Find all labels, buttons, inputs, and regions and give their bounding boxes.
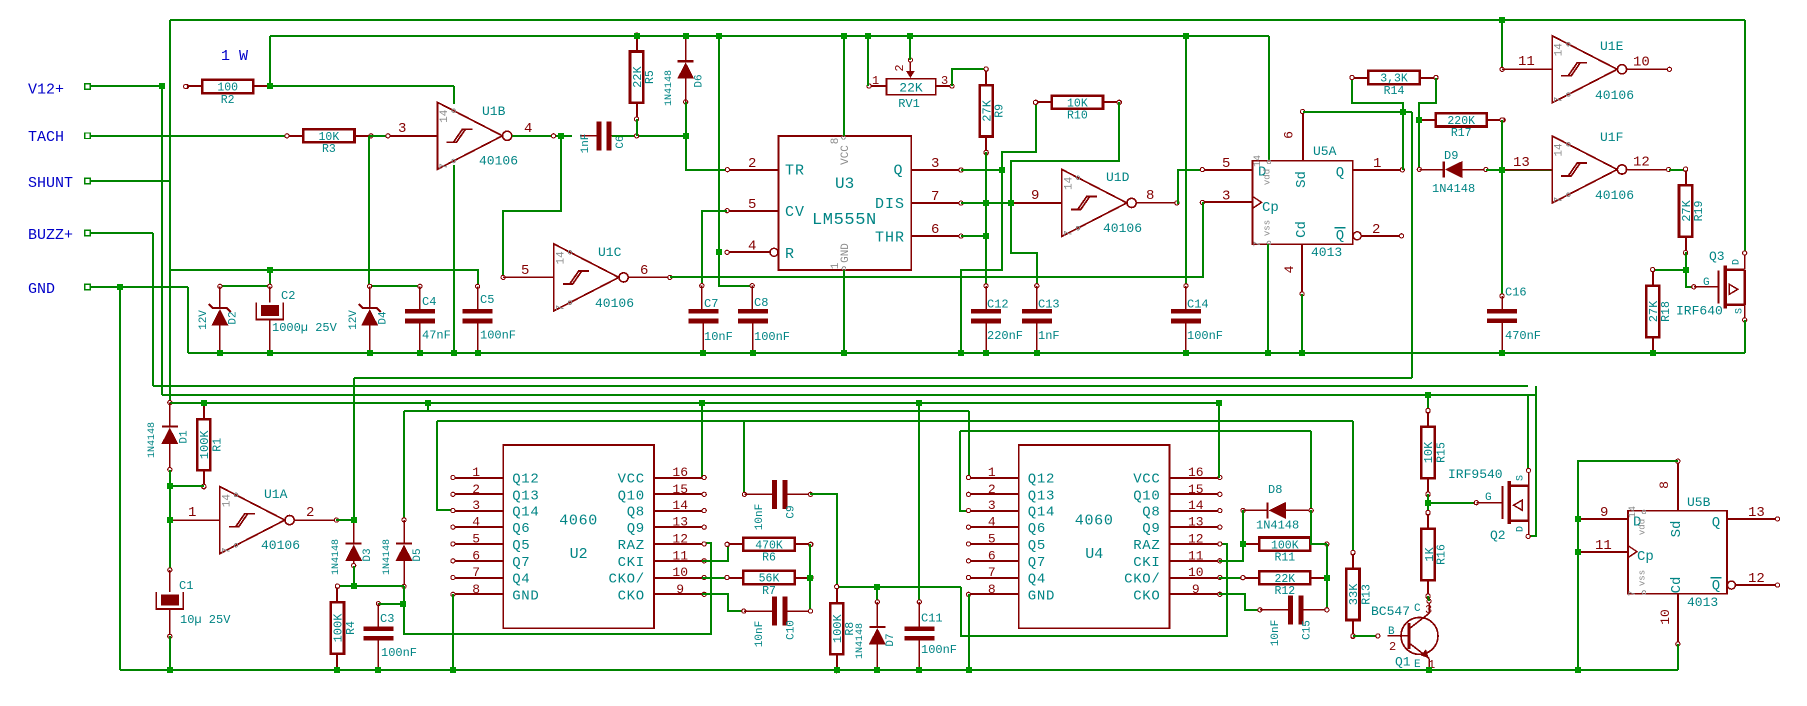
svg-text:7: 7 bbox=[931, 189, 939, 205]
junction C3/RAZ net bbox=[400, 601, 406, 607]
wire BUZZ+ to Q2 drain bbox=[1528, 386, 1536, 536]
svg-text:Q8: Q8 bbox=[627, 505, 645, 521]
junction U3 gnd rail bbox=[841, 350, 847, 356]
junction R17 left bbox=[1416, 117, 1422, 123]
svg-text:14: 14 bbox=[1554, 43, 1566, 57]
U5A pin 1 Q bbox=[1353, 169, 1402, 171]
wire U1D out bbox=[1136, 202, 1177, 204]
pin D4 top lead bbox=[369, 286, 371, 308]
wire GND vertical to bottom rail bbox=[119, 287, 121, 670]
pin C2 top lead bbox=[269, 286, 271, 302]
svg-text:Q14: Q14 bbox=[512, 505, 539, 521]
pin C7 bottom lead bbox=[702, 321, 704, 353]
capacitor C6 bbox=[596, 121, 601, 150]
wire to U4 pin1 bbox=[968, 411, 970, 478]
svg-text:RAZ: RAZ bbox=[1133, 538, 1160, 554]
svg-text:1: 1 bbox=[1373, 156, 1381, 172]
resistor R6 bbox=[743, 538, 794, 551]
pin circle R13 top bbox=[1351, 551, 1355, 555]
diode D9 bbox=[1443, 162, 1445, 178]
pin circle U1C in bbox=[501, 275, 505, 279]
inverter U1E bbox=[1552, 36, 1617, 103]
capacitor C16 bbox=[1487, 309, 1517, 314]
svg-text:4060: 4060 bbox=[1075, 513, 1114, 530]
capacitor C4 bbox=[405, 309, 435, 314]
svg-text:D6: D6 bbox=[694, 74, 706, 87]
pin U1D in bbox=[1011, 202, 1062, 204]
svg-text:7: 7 bbox=[221, 547, 233, 554]
svg-text:Q13: Q13 bbox=[1028, 488, 1055, 504]
svg-text:Q4: Q4 bbox=[512, 572, 530, 588]
trimpot RV1 body bbox=[887, 79, 936, 95]
pin Q3 gate lead bbox=[1694, 286, 1719, 288]
svg-text:15: 15 bbox=[672, 482, 688, 497]
junction R1 top bbox=[201, 400, 207, 406]
svg-text:R: R bbox=[785, 246, 794, 263]
pin Q3 source bbox=[1744, 305, 1746, 320]
pin circle R1 bottom bbox=[202, 484, 206, 488]
resistor R4 bbox=[331, 602, 344, 653]
pin circle D8 left bbox=[1241, 508, 1245, 512]
label C9 10nF bbox=[754, 504, 766, 530]
wire THR out bbox=[961, 235, 986, 237]
svg-text:470K: 470K bbox=[755, 540, 783, 553]
svg-text:1N4148: 1N4148 bbox=[664, 70, 675, 106]
wire Q down to rail bbox=[961, 170, 1002, 353]
pin D1 bottom lead bbox=[169, 444, 171, 470]
junction U4 gnd bbox=[966, 667, 972, 673]
pin circle C9 right bbox=[808, 492, 812, 496]
capacitor C7 bbox=[689, 309, 719, 314]
svg-text:vdd: vdd bbox=[1263, 169, 1273, 185]
wire R2 out to U1B pin14 bbox=[270, 85, 454, 87]
svg-text:10K: 10K bbox=[319, 131, 340, 144]
junction R4 gnd bbox=[334, 667, 340, 673]
pin name Sd U5A bbox=[1294, 171, 1310, 188]
svg-text:TACH: TACH bbox=[28, 129, 64, 146]
U5B pin 8 Sd bbox=[1677, 461, 1679, 511]
svg-text:100nF: 100nF bbox=[480, 329, 516, 343]
svg-text:U2: U2 bbox=[570, 546, 588, 563]
label S Q2 bbox=[1516, 475, 1527, 481]
junction D2 gnd bbox=[217, 350, 223, 356]
transistor Q1 BC547 bbox=[1401, 617, 1438, 654]
svg-text:IRF9540: IRF9540 bbox=[1448, 467, 1503, 482]
pin circle D5 bottom bbox=[402, 584, 406, 588]
svg-text:R19: R19 bbox=[1693, 201, 1706, 222]
junction C16 gnd bbox=[1499, 350, 1505, 356]
wire D6 to TR node bbox=[685, 102, 687, 136]
wire top rail V12+ bbox=[170, 19, 1745, 21]
wire RV1 pin3 to R9 bbox=[952, 69, 986, 86]
svg-text:100K: 100K bbox=[198, 430, 212, 460]
pin U1B in lead bbox=[388, 135, 437, 137]
label D4 12V bbox=[348, 310, 360, 330]
capacitor C9 bbox=[772, 480, 777, 509]
svg-text:10: 10 bbox=[1633, 55, 1650, 71]
svg-text:100K: 100K bbox=[831, 614, 845, 644]
wire SHUNT to U2 VCC bbox=[701, 403, 703, 478]
svg-text:4: 4 bbox=[1282, 265, 1297, 273]
wire U3 GND to rail bbox=[843, 270, 845, 353]
svg-text:1N4148: 1N4148 bbox=[1432, 182, 1475, 196]
junction gate node bbox=[1683, 267, 1689, 273]
junction R15 top bbox=[1425, 392, 1431, 398]
pin circle U1E out bbox=[1667, 67, 1671, 71]
wire VCC to C14 bbox=[1185, 36, 1187, 286]
resistor R11 bbox=[1259, 538, 1310, 551]
pin circle R11 right bbox=[1325, 542, 1329, 546]
resistor R10 bbox=[1052, 96, 1103, 109]
capacitor C12 bbox=[971, 309, 1001, 314]
wire U5B Sd tie bbox=[1578, 461, 1678, 670]
wire U1F out bbox=[1627, 169, 1669, 171]
pin circle D1 top bbox=[168, 401, 172, 405]
svg-text:DIS: DIS bbox=[875, 196, 905, 213]
svg-text:10: 10 bbox=[672, 565, 688, 580]
wire CKO/ to R7 bbox=[702, 577, 727, 579]
svg-text:4013: 4013 bbox=[1311, 245, 1342, 260]
svg-text:9: 9 bbox=[1600, 505, 1608, 521]
junction R18 gnd bbox=[1650, 350, 1656, 356]
svg-text:C13: C13 bbox=[1038, 298, 1060, 312]
wire bus BUZZ+ bbox=[153, 385, 1528, 387]
svg-text:R17: R17 bbox=[1451, 127, 1472, 140]
pin circle Q2 gate bbox=[1474, 501, 1478, 505]
pin U1A in lead bbox=[170, 519, 220, 521]
svg-text:4060: 4060 bbox=[559, 513, 598, 530]
svg-text:C9: C9 bbox=[786, 505, 798, 518]
pin Q1 emitter bbox=[1428, 658, 1430, 670]
label S Q3 bbox=[1735, 308, 1746, 314]
pin circle R19 bottom bbox=[1684, 250, 1688, 254]
wire C1 bottom to rail bbox=[169, 636, 171, 670]
U5A pin 14 vdd bbox=[1253, 155, 1264, 167]
wire R3 to U1B input bbox=[369, 135, 388, 137]
U3 pin 3 Q bbox=[911, 169, 961, 171]
junction D6 bottom node bbox=[683, 133, 689, 139]
svg-text:RAZ: RAZ bbox=[618, 538, 645, 554]
svg-text:40106: 40106 bbox=[595, 296, 634, 311]
pin circle U1C out bbox=[668, 275, 672, 279]
svg-text:GND: GND bbox=[840, 243, 852, 263]
pin circle R10 left bbox=[1034, 100, 1038, 104]
wire U5A Cd to rail bbox=[1301, 294, 1303, 353]
junction C12 gnd bbox=[983, 350, 989, 356]
U5B pin 11 Cp bbox=[1578, 551, 1628, 553]
pin D9 left lead bbox=[1419, 169, 1444, 171]
junction C11 gnd bbox=[916, 667, 922, 673]
U5A pin 3 Cp bbox=[1202, 201, 1253, 203]
pin circle C7 top bbox=[700, 284, 704, 288]
wire V12+ port bbox=[90, 85, 162, 87]
svg-text:C3: C3 bbox=[380, 612, 394, 626]
pin circle R15 bottom bbox=[1426, 492, 1430, 496]
wire bus V12+ bbox=[162, 394, 1537, 396]
diode D7 bbox=[869, 626, 885, 628]
wire R6-R7-C10 right bbox=[809, 544, 811, 611]
inverter U1B bbox=[437, 102, 502, 169]
svg-text:U1C: U1C bbox=[598, 245, 622, 260]
svg-text:Q: Q bbox=[893, 163, 902, 180]
svg-text:4: 4 bbox=[524, 121, 532, 137]
svg-text:7: 7 bbox=[1063, 230, 1075, 237]
svg-text:U1F: U1F bbox=[1600, 130, 1623, 145]
svg-text:9: 9 bbox=[1031, 188, 1039, 204]
pin circle D9 right bbox=[1484, 167, 1488, 171]
wire CKI U4 jog bbox=[1219, 544, 1243, 561]
svg-text:D: D bbox=[1516, 526, 1527, 532]
IC U2 4060 bbox=[503, 445, 654, 628]
svg-text:12: 12 bbox=[1748, 571, 1765, 587]
svg-text:CKO: CKO bbox=[618, 588, 645, 604]
pin C12 top lead bbox=[985, 286, 987, 312]
svg-text:7: 7 bbox=[988, 565, 996, 580]
junction D4 gnd bbox=[367, 350, 373, 356]
wire R node to C8 bbox=[719, 252, 752, 286]
capacitor C11 bbox=[904, 626, 934, 631]
svg-text:13: 13 bbox=[1513, 155, 1530, 171]
svg-text:Q3: Q3 bbox=[1709, 249, 1725, 264]
resistor R3 bbox=[303, 129, 354, 142]
pin Q1 collector bbox=[1428, 601, 1430, 613]
svg-text:7: 7 bbox=[439, 163, 451, 170]
wire SHUNT to U4 VCC bbox=[1218, 403, 1220, 478]
pin name Cd U5A bbox=[1294, 221, 1310, 238]
label C15 10nF bbox=[1270, 620, 1282, 646]
wire R5 bottom bbox=[636, 119, 638, 136]
pin D5 bottom lead bbox=[403, 561, 405, 586]
label D7 1N4148 bbox=[855, 623, 866, 659]
junction R7 right bbox=[807, 575, 813, 581]
pin Q3 drain bbox=[1744, 253, 1746, 270]
svg-text:U5B: U5B bbox=[1687, 495, 1711, 510]
pin C10 left lead bbox=[744, 610, 767, 612]
pin circle R17 right bbox=[1500, 118, 1504, 122]
pin C13 bottom lead bbox=[1036, 321, 1038, 353]
wire VCC rail to U3 pin8 bbox=[843, 36, 845, 136]
wire U4 GND to rail bbox=[968, 594, 970, 670]
junction C2 gnd bbox=[267, 350, 273, 356]
svg-text:Cd: Cd bbox=[1669, 577, 1685, 594]
svg-text:8: 8 bbox=[1657, 481, 1672, 489]
wire top rail down to Q3 drain bbox=[1744, 20, 1746, 253]
svg-text:4: 4 bbox=[472, 515, 480, 530]
diode D5 bbox=[396, 542, 412, 544]
junction D1/R1 bbox=[167, 483, 173, 489]
wire D1 bottom / U1A in vertical bbox=[169, 470, 171, 570]
label D7 bbox=[885, 633, 897, 646]
svg-text:1000µ 25V: 1000µ 25V bbox=[272, 321, 338, 335]
svg-text:G: G bbox=[1703, 277, 1710, 289]
wire D8 right to R11 right bbox=[1311, 510, 1327, 544]
pin circle R15 top bbox=[1426, 409, 1430, 413]
pin circle C10 right bbox=[808, 609, 812, 613]
pin C5 bottom lead bbox=[477, 321, 479, 353]
svg-text:12: 12 bbox=[1633, 155, 1650, 171]
junction C8 gnd bbox=[750, 350, 756, 356]
wire to Q2 gate bbox=[1428, 502, 1476, 504]
junction U5B D bbox=[1575, 516, 1581, 522]
svg-text:12V: 12V bbox=[198, 310, 210, 330]
pin C1 bottom lead bbox=[169, 609, 171, 636]
inverter U1A bbox=[220, 487, 285, 554]
RV1 wiper arrow bbox=[909, 60, 911, 74]
junction C2 riser bbox=[267, 267, 273, 273]
wire bottom GND rail bbox=[120, 669, 1678, 671]
pin circle Q1 base bbox=[1376, 634, 1380, 638]
label D3 bbox=[362, 548, 374, 561]
wire D5 riser bbox=[403, 411, 405, 520]
label C15 bbox=[1302, 620, 1314, 640]
wire SHUNT vertical top-rail to D1 bbox=[169, 20, 171, 403]
pin circle R9 bottom bbox=[984, 150, 988, 154]
svg-text:LM555N: LM555N bbox=[812, 211, 877, 230]
pin C12 bottom lead bbox=[985, 321, 987, 353]
pin name Sd U5B bbox=[1669, 521, 1685, 538]
label C10 10nF bbox=[754, 621, 766, 647]
svg-text:Q: Q bbox=[1712, 515, 1720, 531]
wire D7 stub bbox=[876, 587, 878, 602]
svg-text:R13: R13 bbox=[1360, 584, 1373, 605]
svg-text:11: 11 bbox=[1188, 548, 1204, 563]
resistor R8 bbox=[830, 603, 843, 654]
svg-text:U1B: U1B bbox=[482, 104, 506, 119]
svg-text:4: 4 bbox=[748, 239, 756, 255]
capacitor C1 10u bbox=[156, 592, 183, 609]
wire VCC rail bbox=[270, 35, 1269, 37]
svg-text:R15: R15 bbox=[1436, 442, 1449, 463]
wire CV to C7 bbox=[702, 211, 727, 286]
junction Sd/R14/Q bbox=[1400, 109, 1406, 115]
resistor R12 bbox=[1259, 571, 1310, 584]
pin circle C16 top bbox=[1500, 294, 1504, 298]
wire rail to RV1 wiper bbox=[909, 36, 911, 60]
svg-text:C4: C4 bbox=[422, 295, 436, 309]
svg-text:D5: D5 bbox=[412, 548, 424, 561]
svg-text:47nF: 47nF bbox=[422, 329, 451, 343]
svg-text:12: 12 bbox=[672, 531, 688, 546]
svg-text:V12+: V12+ bbox=[28, 82, 64, 99]
U5B pin 7 vss bbox=[1628, 590, 1639, 596]
svg-text:THR: THR bbox=[875, 230, 905, 247]
junction D6 top bbox=[683, 33, 689, 39]
pin circle C5 top bbox=[476, 284, 480, 288]
wire C3 to D5 vertical bbox=[378, 603, 403, 605]
svg-text:3,3K: 3,3K bbox=[1380, 73, 1408, 86]
transistor Q2 IRF9540 bbox=[1501, 486, 1503, 519]
wire U2 GND to rail bbox=[452, 594, 454, 670]
wire U1F out to R19 bbox=[1669, 169, 1686, 171]
svg-text:1: 1 bbox=[472, 465, 480, 480]
svg-text:3: 3 bbox=[988, 498, 996, 513]
wire R19 to gate node bbox=[1685, 252, 1687, 270]
pin C4 bottom lead bbox=[419, 321, 421, 353]
svg-text:Q12: Q12 bbox=[512, 472, 539, 488]
pin circle U1F out bbox=[1667, 167, 1671, 171]
svg-text:40106: 40106 bbox=[261, 538, 300, 553]
junction D7 gnd bbox=[874, 667, 880, 673]
diode D8 bbox=[1266, 502, 1268, 518]
wire VCC rail down to U5A pin14 bbox=[1268, 36, 1270, 160]
svg-text:Cp: Cp bbox=[1637, 549, 1654, 565]
junction D7 top bbox=[874, 584, 880, 590]
wire D2-C2 top bbox=[220, 285, 270, 287]
svg-text:10nF: 10nF bbox=[704, 330, 733, 344]
transistor Q3 IRF640 bbox=[1718, 270, 1720, 303]
junction U1E riser bbox=[1499, 17, 1505, 23]
svg-text:S: S bbox=[1735, 308, 1746, 314]
svg-text:10K: 10K bbox=[1067, 98, 1088, 111]
junction Q rail bbox=[958, 350, 964, 356]
wire C9 right to R8 top bbox=[810, 494, 837, 587]
pin circle C13 top bbox=[1035, 284, 1039, 288]
svg-text:14: 14 bbox=[1188, 498, 1204, 513]
label D5 bbox=[412, 548, 424, 561]
pin D2 bottom lead bbox=[219, 326, 221, 353]
svg-text:C7: C7 bbox=[704, 297, 718, 311]
pin C3 bottom lead bbox=[377, 638, 379, 670]
diode D6 bbox=[678, 60, 694, 62]
svg-text:470nF: 470nF bbox=[1505, 329, 1541, 343]
svg-text:S: S bbox=[1516, 475, 1527, 481]
junction R9/THR bbox=[983, 233, 989, 239]
svg-text:22K: 22K bbox=[631, 66, 645, 88]
svg-text:7: 7 bbox=[1554, 197, 1566, 204]
svg-text:27K: 27K bbox=[1680, 199, 1694, 221]
label D6 bbox=[694, 74, 706, 87]
wire DIS out bbox=[961, 202, 1011, 204]
svg-text:22K: 22K bbox=[1274, 573, 1295, 586]
pin circle R8 top bbox=[835, 585, 839, 589]
capacitor C8 bbox=[738, 309, 768, 314]
pin circle R6 right bbox=[808, 542, 812, 546]
wire Q to R10 left bbox=[1002, 102, 1036, 170]
svg-text:100: 100 bbox=[217, 82, 238, 95]
wire D9 to U1F bbox=[1486, 169, 1552, 171]
svg-text:1N4148: 1N4148 bbox=[331, 539, 342, 575]
junction U5B Cp bbox=[1575, 549, 1581, 555]
junction GND bbox=[117, 284, 123, 290]
resistor R17 bbox=[1436, 113, 1487, 126]
resistor R19 bbox=[1679, 185, 1692, 236]
pin circle R12 left bbox=[1241, 576, 1245, 580]
svg-text:D3: D3 bbox=[362, 548, 374, 561]
pin circle R6 left bbox=[725, 542, 729, 546]
junction R12 right bbox=[1324, 575, 1330, 581]
svg-text:100nF: 100nF bbox=[381, 646, 417, 660]
svg-text:8: 8 bbox=[830, 138, 842, 145]
svg-text:D4: D4 bbox=[378, 311, 390, 325]
wire bus Qnet/D3 bbox=[354, 377, 1412, 379]
svg-text:Sd: Sd bbox=[1294, 171, 1310, 188]
wire CKO U4 jog to C15 bbox=[1219, 594, 1260, 610]
U5A pin 2 Qbar bbox=[1362, 235, 1402, 237]
svg-text:27K: 27K bbox=[1647, 300, 1661, 322]
svg-text:14: 14 bbox=[1253, 155, 1264, 167]
wire R9 bottom down to C12 bbox=[985, 152, 987, 286]
IC U5A box bbox=[1253, 161, 1353, 245]
svg-text:16: 16 bbox=[1188, 465, 1204, 480]
pin circle R16 top bbox=[1426, 511, 1430, 515]
svg-text:8: 8 bbox=[988, 582, 996, 597]
U3 pin 4 R bbox=[727, 251, 773, 253]
wire bus U2pin3/C9/R13 bbox=[437, 420, 1353, 422]
junction Q1 emitter gnd bbox=[1426, 667, 1432, 673]
wire GND port bbox=[90, 286, 188, 288]
junction SHUNT bus drop bbox=[425, 400, 431, 406]
svg-text:D7: D7 bbox=[885, 633, 897, 646]
